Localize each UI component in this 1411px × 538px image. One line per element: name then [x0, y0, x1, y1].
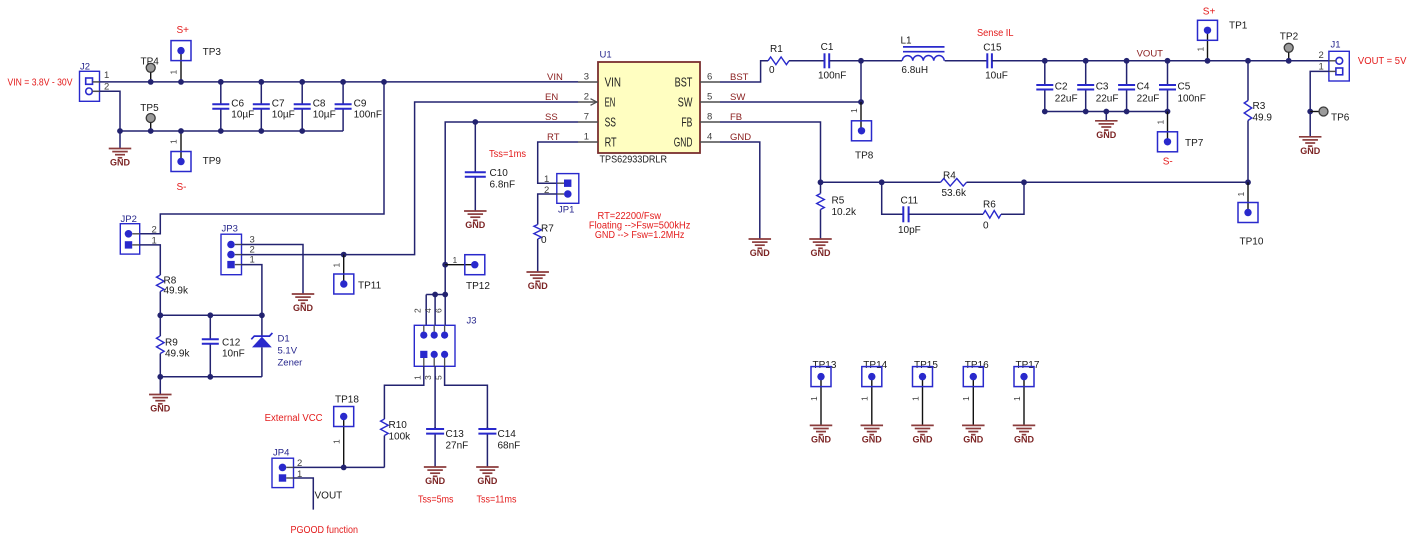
wire R10 to JP4 row: [383, 436, 385, 468]
testpoint TP15: [910, 360, 938, 425]
jumper JP3: [221, 224, 242, 275]
svg-text:C6: C6: [231, 99, 244, 110]
svg-text:10µF: 10µF: [313, 110, 336, 121]
net label EN: [545, 92, 558, 103]
node C9 top junction: [340, 79, 346, 85]
net label SW: [730, 92, 745, 103]
wire divider top rail: [160, 314, 262, 316]
node output GND junction: [1103, 109, 1109, 115]
svg-text:GND: GND: [750, 248, 771, 258]
resistor R9: [157, 315, 191, 377]
svg-text:1: 1: [1155, 120, 1165, 125]
testpoint TP16: [961, 360, 989, 425]
pin 2 U1.EN stub: [578, 91, 615, 109]
svg-text:53.6k: 53.6k: [942, 188, 967, 199]
svg-text:BST: BST: [675, 76, 693, 90]
pin number JP3-1: [250, 255, 255, 266]
pin 6 U1.BST stub: [675, 71, 720, 89]
svg-text:External VCC: External VCC: [265, 413, 323, 424]
red annotation Tss=11ms: [477, 495, 517, 506]
svg-text:R3: R3: [1253, 101, 1266, 112]
svg-text:SW: SW: [678, 96, 693, 110]
red annotation External VCC: [265, 413, 323, 424]
svg-text:TP4: TP4: [141, 57, 160, 68]
svg-text:1: 1: [332, 263, 342, 268]
red annotation Tss=1ms: [489, 149, 526, 160]
svg-text:10µF: 10µF: [231, 110, 254, 121]
testpoint TP3: [169, 41, 222, 82]
svg-text:C11: C11: [901, 196, 919, 207]
svg-text:GND: GND: [150, 404, 171, 414]
wire J3.1 to R10: [384, 366, 423, 419]
wire divider bottom rail: [160, 376, 262, 378]
ground GND (output caps): [1095, 112, 1118, 141]
svg-text:R4: R4: [943, 171, 956, 182]
svg-text:1: 1: [413, 375, 423, 380]
svg-text:100nF: 100nF: [354, 110, 382, 121]
pin number J3-6: [434, 308, 444, 313]
svg-text:R9: R9: [165, 338, 178, 349]
net label FB: [730, 112, 742, 123]
node bottom rail R9 junction: [157, 374, 163, 380]
svg-text:2: 2: [584, 91, 589, 102]
svg-text:GND: GND: [110, 158, 131, 168]
wire SW net (U1.SW to node): [720, 101, 861, 103]
wire J1.1 to GND: [1310, 71, 1329, 136]
connector J3: [414, 316, 476, 367]
red annotation RT=22200/Fsw: [589, 211, 691, 241]
svg-text:1: 1: [910, 396, 920, 401]
svg-text:1: 1: [453, 255, 458, 265]
testpoint TP5: [140, 103, 159, 131]
svg-text:0: 0: [769, 65, 775, 76]
svg-text:S-: S-: [1163, 157, 1173, 168]
svg-text:1: 1: [332, 439, 342, 444]
wire VIN rail (J2.1 to U1.VIN): [100, 81, 579, 83]
svg-text:R1: R1: [770, 44, 783, 55]
node TP11 junction: [341, 252, 347, 258]
svg-text:6.8uH: 6.8uH: [901, 65, 928, 76]
pin number JP4-1: [297, 469, 302, 480]
svg-text:2: 2: [152, 225, 157, 236]
pin number JP3-2: [250, 245, 255, 256]
ground GND (R7): [526, 272, 549, 291]
node TP2 junction: [1286, 58, 1292, 64]
node VIN/JP2 takeoff junction: [381, 79, 387, 85]
ground GND (TP13): [810, 425, 833, 444]
red annotation VIN = 3.8V - 30V: [8, 78, 73, 89]
testpoint TP12: [445, 255, 490, 292]
wire VOUT rail (C15 to J1.2): [992, 60, 1329, 62]
wire SW node to TP8: [860, 61, 862, 131]
capacitor C11: [898, 196, 921, 237]
capacitor C2: [1036, 61, 1077, 112]
capacitor C7: [253, 82, 295, 131]
red annotation Tss=5ms: [418, 495, 454, 506]
svg-text:6: 6: [707, 71, 712, 82]
svg-text:GND: GND: [528, 281, 549, 291]
svg-text:4: 4: [423, 308, 433, 313]
svg-text:TP2: TP2: [1280, 32, 1299, 43]
svg-text:C5: C5: [1178, 82, 1191, 93]
ground GND (TP17): [1013, 425, 1036, 444]
svg-text:3: 3: [584, 71, 589, 82]
node R3 top junction: [1245, 58, 1251, 64]
pin number JP3-3: [250, 235, 255, 246]
svg-text:VIN: VIN: [547, 72, 563, 83]
testpoint TP14: [860, 360, 888, 425]
svg-text:GND: GND: [963, 435, 984, 445]
testpoint TP17: [1012, 360, 1040, 425]
pin 1 U1.RT stub: [578, 131, 617, 149]
testpoint TP10: [1236, 182, 1264, 247]
wire FB net (U1.FB to divider): [720, 122, 821, 182]
node TP9 junction: [178, 128, 184, 134]
red annotation S- (TP9): [177, 182, 187, 193]
svg-text:VIN: VIN: [605, 76, 621, 90]
svg-text:GND: GND: [1014, 435, 1035, 445]
wire L1 to C15: [945, 60, 988, 62]
svg-text:5.1V: 5.1V: [278, 346, 298, 357]
capacitor C8: [294, 82, 336, 131]
wire VIN to JP2.2: [140, 82, 384, 234]
svg-text:TP10: TP10: [1240, 237, 1264, 248]
svg-text:2: 2: [413, 308, 423, 313]
pin 5 U1.SW stub: [678, 91, 720, 109]
pin number JP4-2: [297, 458, 302, 469]
capacitor C4: [1118, 61, 1159, 112]
pin number J3-5: [434, 375, 444, 380]
svg-text:PGOOD function: PGOOD function: [291, 525, 359, 536]
capacitor C3: [1077, 61, 1118, 112]
red annotation VOUT = 5V: [1358, 56, 1407, 67]
node C5 top junction: [1165, 58, 1171, 64]
svg-text:TP6: TP6: [1331, 113, 1350, 124]
capacitor C15: [983, 43, 1008, 82]
svg-text:S-: S-: [177, 182, 187, 193]
wire RT net (U1.RT to JP1.1): [538, 142, 578, 183]
svg-text:J2: J2: [80, 62, 90, 73]
svg-text:GND: GND: [862, 435, 883, 445]
capacitor C13: [426, 427, 468, 467]
resistor R7: [534, 224, 554, 247]
svg-text:6.8nF: 6.8nF: [490, 180, 516, 191]
pin 3 U1.VIN stub: [578, 71, 621, 89]
svg-text:22uF: 22uF: [1096, 94, 1119, 105]
jumper JP2: [120, 214, 139, 254]
red annotation S+ (TP3): [177, 25, 190, 36]
wire R7 to GND: [537, 239, 539, 272]
node C4 bottom junction: [1124, 109, 1130, 115]
svg-text:JP4: JP4: [273, 448, 289, 459]
svg-text:R6: R6: [983, 200, 996, 211]
svg-text:VOUT = 5V: VOUT = 5V: [1358, 56, 1407, 67]
svg-text:GND: GND: [913, 435, 934, 445]
wire R1 to C1: [789, 60, 825, 62]
node C5 bottom junction: [1165, 109, 1171, 115]
node J2.2/GND junction: [117, 128, 123, 134]
pin number J3-3: [423, 375, 433, 380]
node C8 top junction: [299, 79, 305, 85]
ground GND (TP14): [861, 425, 884, 444]
svg-text:C12: C12: [222, 338, 241, 349]
pin 7 U1.SS stub: [578, 111, 616, 129]
ground GND (R5): [809, 239, 832, 258]
svg-text:22uF: 22uF: [1137, 94, 1160, 105]
node SW TP8 junction: [858, 99, 864, 105]
wire BST net (U1.BST to R1): [720, 61, 768, 82]
wire FB row left: [821, 181, 941, 183]
node C11 branch junction: [879, 179, 885, 185]
svg-text:FB: FB: [681, 116, 692, 130]
svg-text:GND: GND: [477, 476, 498, 486]
testpoint TP11: [332, 255, 382, 294]
ground GND (U1.GND): [749, 239, 772, 258]
svg-text:100k: 100k: [389, 432, 412, 443]
svg-text:1: 1: [169, 139, 179, 144]
svg-text:GND: GND: [1300, 146, 1321, 156]
svg-text:68nF: 68nF: [498, 441, 521, 452]
node TP12 junction: [442, 262, 448, 268]
net label BST: [730, 72, 749, 83]
wire J3.3 to C13: [434, 366, 436, 428]
capacitor C5: [1159, 61, 1206, 112]
testpoint TP7: [1155, 112, 1203, 152]
svg-text:Zener: Zener: [278, 358, 303, 369]
node C2 bottom junction: [1042, 109, 1048, 115]
svg-text:C14: C14: [498, 429, 517, 440]
pin number JP1-1: [544, 174, 549, 185]
node J3 tie junction a: [432, 292, 438, 298]
resistor R10: [381, 419, 412, 443]
ground GND (J2): [109, 131, 132, 168]
pin number JP2-2: [152, 225, 157, 236]
ground GND (JP3.3): [292, 294, 315, 313]
connector J2: [80, 62, 100, 102]
pin number J3-4: [423, 308, 433, 313]
wire EN net (JP3.2 to U1.EN): [242, 102, 579, 255]
node C7 top junction: [258, 79, 264, 85]
wire C11 to R6: [909, 213, 983, 215]
svg-text:TP14: TP14: [863, 360, 887, 371]
svg-text:49.9: 49.9: [1253, 113, 1273, 124]
inductor L1: [901, 36, 945, 77]
wire JP4.1 VOUT stub: [294, 478, 314, 510]
wire U1.GND to ground: [720, 142, 760, 239]
capacitor C14: [478, 427, 520, 467]
node FB/R3/TP10 junction: [1245, 179, 1251, 185]
svg-text:49.9k: 49.9k: [164, 286, 189, 297]
node R6/FB junction: [1021, 179, 1027, 185]
pin number J3-1: [413, 375, 423, 380]
svg-text:8: 8: [707, 111, 712, 122]
testpoint TP1: [1195, 20, 1247, 61]
svg-text:GND --> Fsw=1.2MHz: GND --> Fsw=1.2MHz: [595, 230, 685, 241]
svg-text:R7: R7: [541, 224, 554, 235]
red annotation S+ (TP1): [1203, 7, 1216, 18]
svg-text:J3: J3: [467, 316, 477, 327]
red annotation PGOOD function: [291, 525, 359, 536]
node C8 bottom junction: [299, 128, 305, 134]
ground GND (TP16): [962, 425, 985, 444]
wire JP2.1 to R8: [140, 245, 161, 275]
node C6 bottom junction: [218, 128, 224, 134]
net label VOUT: [1137, 49, 1164, 60]
svg-text:22uF: 22uF: [1055, 94, 1078, 105]
connector J1: [1329, 40, 1349, 82]
svg-text:C2: C2: [1055, 82, 1068, 93]
wire JP4.2 to R10: [294, 466, 385, 468]
node bottom rail C12 junction: [207, 374, 213, 380]
resistor R1: [768, 44, 789, 76]
pin number JP2-1: [152, 236, 157, 247]
svg-text:RT: RT: [605, 136, 617, 150]
node J3 tie junction b: [442, 292, 448, 298]
testpoint TP13: [809, 360, 837, 425]
svg-text:S+: S+: [1203, 7, 1216, 18]
svg-text:GND: GND: [293, 303, 314, 313]
wire JP1.2 to R7: [538, 194, 557, 225]
net label RT: [547, 132, 560, 143]
red annotation S- (TP7): [1163, 157, 1173, 168]
svg-text:49.9k: 49.9k: [165, 349, 190, 360]
wire JP3.1 to divider mid: [242, 265, 262, 316]
wire C11 branch down: [882, 182, 904, 214]
svg-text:TP17: TP17: [1016, 360, 1040, 371]
node C4 top junction: [1124, 58, 1130, 64]
node TP4 junction: [148, 79, 154, 85]
ground GND (R9): [149, 377, 172, 414]
resistor R8: [157, 275, 189, 297]
ground GND (J1): [1299, 137, 1322, 156]
ground GND (C10): [464, 211, 487, 230]
wire R6 up to FB row: [1001, 182, 1024, 214]
svg-text:C3: C3: [1096, 82, 1109, 93]
capacitor C6: [212, 82, 254, 131]
svg-text:C15: C15: [983, 43, 1002, 54]
svg-text:0: 0: [541, 235, 547, 246]
wire J3 top stems: [426, 295, 445, 326]
svg-text:1: 1: [809, 396, 819, 401]
svg-text:GND: GND: [811, 248, 832, 258]
testpoint TP6: [1310, 107, 1350, 124]
svg-text:10nF: 10nF: [222, 349, 245, 360]
svg-text:1: 1: [961, 396, 971, 401]
node divider C12 top junction: [207, 312, 213, 318]
testpoint TP8: [849, 108, 874, 162]
wire output bottom rail: [1045, 111, 1168, 113]
jumper JP1: [557, 174, 579, 216]
pin number J3-2: [413, 308, 423, 313]
svg-text:TP3: TP3: [203, 47, 222, 58]
svg-text:VOUT: VOUT: [1137, 49, 1164, 60]
svg-text:EN: EN: [605, 96, 616, 110]
resistor R6: [983, 200, 1001, 232]
svg-text:1: 1: [169, 70, 179, 75]
svg-text:Tss=1ms: Tss=1ms: [489, 149, 526, 160]
node TP1 junction: [1205, 58, 1211, 64]
svg-text:100nF: 100nF: [818, 71, 846, 82]
capacitor C9: [335, 82, 382, 131]
wire R8 to divider rail: [159, 292, 161, 316]
node C6 top junction: [218, 79, 224, 85]
svg-text:R5: R5: [832, 196, 845, 207]
svg-text:1: 1: [860, 396, 870, 401]
wire J3 tie row: [426, 294, 445, 296]
net label VIN: [547, 72, 563, 83]
svg-text:GND: GND: [1096, 130, 1117, 140]
svg-text:C9: C9: [354, 99, 367, 110]
svg-text:TP15: TP15: [914, 360, 938, 371]
jumper JP4: [272, 448, 294, 488]
pin number J2-2: [104, 82, 109, 93]
svg-text:J1: J1: [1331, 40, 1341, 51]
node FB/R5 junction: [818, 179, 824, 185]
svg-text:S+: S+: [177, 25, 190, 36]
svg-text:1: 1: [544, 174, 549, 185]
svg-text:2: 2: [1319, 50, 1324, 61]
EN input arrow: [591, 99, 597, 106]
wire JP3.3 to GND: [242, 245, 304, 295]
svg-text:GND: GND: [425, 476, 446, 486]
svg-text:1: 1: [584, 131, 589, 142]
svg-text:TP18: TP18: [335, 395, 359, 406]
ground GND (C14): [476, 467, 499, 486]
node TP5 junction: [148, 128, 154, 134]
capacitor C10: [465, 122, 515, 211]
svg-text:TP13: TP13: [813, 360, 837, 371]
svg-text:C8: C8: [313, 99, 326, 110]
net label VOUT (PGOOD): [315, 491, 343, 502]
svg-text:1: 1: [849, 108, 859, 113]
svg-text:L1: L1: [901, 36, 913, 47]
resistor R5: [817, 182, 857, 239]
wire input bottom rail: [120, 130, 343, 132]
net label GND: [730, 132, 751, 143]
wire C1 to SW node: [829, 60, 902, 62]
resistor R4: [941, 171, 967, 200]
svg-text:JP2: JP2: [121, 214, 137, 225]
diode D1 5.1V zener: [251, 315, 302, 377]
node SW/C1/L1 junction: [858, 58, 864, 64]
wire FB row right: [967, 181, 1249, 183]
svg-text:TP5: TP5: [140, 103, 159, 114]
svg-text:1: 1: [1236, 192, 1246, 197]
svg-text:10pF: 10pF: [898, 225, 921, 236]
svg-text:JP3: JP3: [222, 224, 238, 235]
ground GND (C13): [424, 467, 447, 486]
net label SS: [545, 112, 558, 123]
red annotation Sense IL: [977, 28, 1014, 39]
resistor R3: [1244, 61, 1272, 183]
svg-text:10uF: 10uF: [985, 71, 1008, 82]
node C10 junction: [472, 119, 478, 125]
node TP18 junction: [341, 465, 347, 471]
ground GND (TP15): [911, 425, 934, 444]
svg-text:D1: D1: [278, 334, 290, 345]
pin number J2-1: [104, 70, 109, 81]
svg-text:10µF: 10µF: [272, 110, 295, 121]
op-amp U1 TPS62933DRLR body: [598, 50, 700, 166]
testpoint TP9: [169, 131, 222, 172]
svg-text:R10: R10: [389, 420, 408, 431]
node TP3 junction: [178, 79, 184, 85]
svg-text:Tss=11ms: Tss=11ms: [477, 495, 517, 506]
node C2 top junction: [1042, 58, 1048, 64]
node C3 bottom junction: [1083, 109, 1089, 115]
svg-text:TP8: TP8: [855, 151, 874, 162]
svg-text:TPS62933DRLR: TPS62933DRLR: [600, 155, 668, 166]
